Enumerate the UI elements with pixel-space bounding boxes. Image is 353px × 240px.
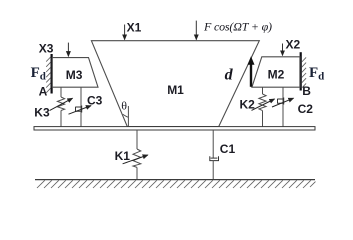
damper C1 cup	[210, 156, 219, 160]
left fixed wall	[50, 54, 52, 94]
svg-text:C1: C1	[220, 142, 236, 156]
node X1 displacement arrow	[124, 25, 126, 40]
mass M2 quadrilateral	[252, 57, 300, 87]
damper C1 lower rod	[212, 161, 214, 180]
svg-text:M2: M2	[268, 68, 285, 82]
spring K3 variable arrow	[50, 98, 73, 110]
damper C3 variable arrow	[69, 106, 92, 115]
damper C2 variable arrow	[272, 98, 294, 107]
svg-text:M1: M1	[167, 83, 184, 97]
damper C3 cup and piston	[76, 106, 82, 113]
spring K2 upper lead	[262, 87, 264, 94]
spring K3 upper lead	[60, 87, 62, 97]
svg-text:C2: C2	[298, 102, 314, 116]
spring K1 zigzag	[133, 149, 141, 167]
damper C3 rod	[80, 87, 82, 127]
right wall hatching	[302, 57, 306, 88]
angle theta arc	[123, 114, 129, 117]
svg-text:θ: θ	[121, 99, 127, 113]
svg-text:Fd: Fd	[309, 65, 324, 83]
svg-text:B: B	[302, 84, 311, 98]
svg-text:X3: X3	[39, 42, 54, 56]
mass M1 trapezoid	[91, 41, 259, 127]
ground line	[35, 179, 315, 181]
right fixed wall	[300, 52, 302, 90]
svg-text:K1: K1	[115, 149, 131, 163]
svg-text:Fd: Fd	[31, 65, 46, 83]
ground hatching	[37, 180, 316, 188]
svg-text:A: A	[39, 85, 48, 99]
damper C1 upper rod	[212, 130, 214, 158]
spring K3 zigzag	[57, 97, 64, 111]
damper C2 rod	[282, 87, 284, 127]
mass M3 trapezoid	[52, 58, 98, 88]
force F cos(OmegaT+phi) arrow	[195, 21, 197, 40]
spring K1 variable arrow	[123, 155, 148, 164]
base plate bar	[34, 127, 315, 130]
angle theta reference line	[127, 106, 129, 127]
damper C1 piston	[211, 157, 218, 159]
spring K1 upper lead	[136, 130, 138, 149]
svg-text:d: d	[225, 66, 234, 83]
svg-text:K2: K2	[240, 97, 256, 111]
svg-text:M3: M3	[66, 68, 83, 82]
spring K2 lower lead	[262, 111, 264, 127]
svg-text:C3: C3	[87, 93, 103, 107]
left wall hatching	[46, 57, 50, 93]
svg-text:K3: K3	[34, 106, 50, 120]
displacement d thick arrow	[248, 56, 255, 87]
svg-text:F cos(ΩT + φ): F cos(ΩT + φ)	[203, 19, 272, 33]
spring K2 variable arrow	[252, 99, 275, 110]
damper C2 cup and piston	[278, 98, 284, 105]
node X3 displacement arrow	[67, 43, 69, 57]
svg-text:X2: X2	[286, 37, 301, 51]
spring K2 zigzag	[259, 94, 266, 111]
spring K3 lower lead	[60, 111, 62, 127]
node X2 displacement arrow	[282, 44, 284, 56]
spring K1 lower lead	[136, 167, 138, 179]
svg-text:X1: X1	[127, 21, 142, 35]
